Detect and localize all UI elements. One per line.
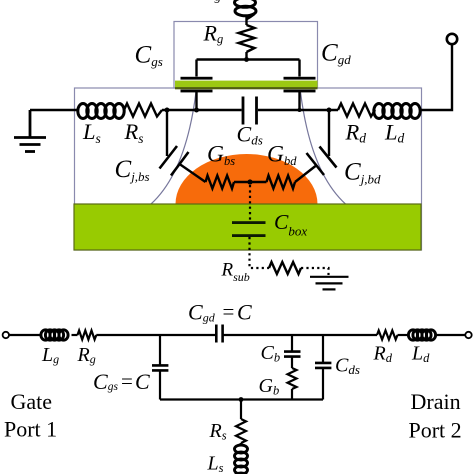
inductor Ls bottom	[235, 443, 248, 474]
inductor top (gate lead)	[235, 0, 257, 19]
gate oxide green bar	[175, 81, 318, 88]
resistor Rd top	[338, 104, 375, 117]
capacitor Cj,bs tilted	[160, 146, 189, 176]
wire Rd-Ld	[398, 334, 410, 336]
branch Cgs vertical	[159, 335, 161, 400]
node drain	[327, 108, 332, 113]
svg-text:=: =	[223, 300, 235, 324]
capacitor Cds top	[243, 97, 257, 125]
capacitor Cds bottom	[315, 363, 331, 368]
wire Cbox dotted lower	[250, 237, 270, 268]
resistor Rg top	[239, 25, 255, 52]
svg-text:g: g	[215, 0, 222, 4]
wire Cds to drain	[258, 109, 300, 111]
wire top rail left	[96, 334, 216, 336]
wire to Cjbd	[328, 110, 330, 156]
depletion dome	[176, 154, 318, 204]
node gate-drain stem	[298, 108, 302, 112]
resistor Rg bottom	[78, 331, 97, 340]
svg-text:Port 2: Port 2	[409, 418, 462, 443]
branch Cds vertical	[322, 335, 324, 400]
substrate box (buried oxide green bar)	[74, 204, 421, 250]
wire to Cjbs	[166, 110, 168, 156]
resistor Gb	[288, 368, 297, 389]
wire body node	[234, 181, 267, 183]
wire drain lead	[421, 45, 452, 110]
wire Rs stem	[240, 400, 242, 420]
channel curve left	[151, 92, 196, 204]
capacitor Cj,bd tilted	[307, 147, 337, 176]
inductor Ld bottom	[408, 330, 435, 340]
branch Cb Gb vertical	[291, 335, 293, 400]
terminal port2	[465, 332, 471, 338]
resistor Rsub	[269, 262, 301, 274]
ground source	[14, 110, 46, 152]
svg-text:=: =	[121, 369, 133, 393]
wire gate stem	[245, 17, 247, 60]
resistor Rd bottom	[377, 331, 397, 340]
capacitor Cb	[284, 352, 301, 357]
terminal drain	[447, 34, 457, 44]
svg-text:C: C	[237, 300, 252, 325]
node gate stem junction	[244, 57, 249, 62]
wire Lg-Rg	[72, 334, 78, 336]
svg-text:Drain: Drain	[411, 389, 461, 414]
resistor Gbs	[206, 176, 234, 189]
inductor Ls top	[78, 104, 124, 119]
capacitor Cgs gate plates left	[195, 60, 197, 77]
wire Rsub dotted	[301, 268, 329, 275]
wire to Cds left	[197, 109, 242, 111]
resistor Rs top	[124, 104, 162, 117]
wire source lead	[30, 109, 79, 111]
node source junction	[165, 108, 170, 113]
capacitor Cgd bottom	[216, 325, 222, 343]
box B2 device body frame	[75, 88, 422, 250]
node body	[247, 179, 252, 184]
resistor Gbd	[267, 176, 295, 189]
wire top rail right	[223, 334, 377, 336]
capacitor Cgd gate plates right	[298, 60, 300, 77]
box U1 upper gate frame	[174, 22, 318, 89]
wire port1	[9, 334, 41, 336]
channel curve right	[301, 92, 346, 204]
capacitor Cgs bottom plates	[152, 365, 168, 370]
node Rs tap	[239, 397, 244, 402]
wire body dotted	[249, 185, 251, 221]
wire Gbd to Cjbd	[295, 166, 316, 182]
svg-text:C: C	[135, 369, 150, 394]
svg-text:Port 1: Port 1	[4, 417, 57, 442]
wire bottom rail	[160, 398, 323, 400]
wire drain rail	[300, 109, 339, 111]
svg-text:Gate: Gate	[11, 389, 53, 414]
resistor Rs bottom	[236, 419, 246, 443]
inductor Ld top	[374, 104, 420, 119]
wire to port2	[436, 334, 466, 336]
node gate-source stem	[194, 108, 199, 113]
capacitor Cbox	[232, 221, 266, 224]
wire Cjbs to Gbs	[180, 164, 206, 182]
ground substrate	[310, 277, 349, 290]
wire gate top rail	[197, 58, 300, 60]
inductor Lg bottom	[41, 330, 68, 340]
wire source rail	[162, 109, 197, 111]
terminal port1	[3, 332, 9, 338]
